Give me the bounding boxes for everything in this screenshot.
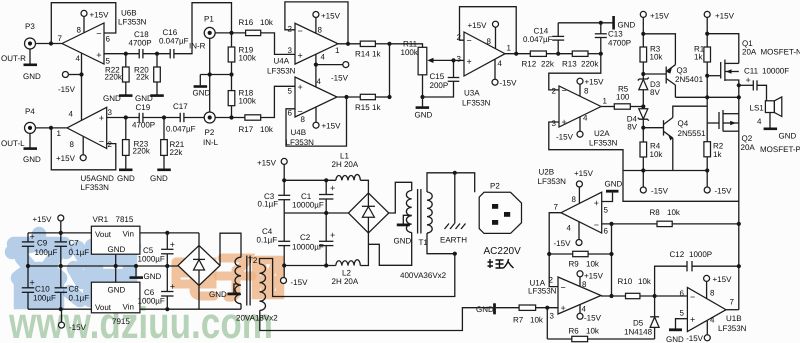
T1 primary bottom lead / AC line xyxy=(427,233,455,254)
svg-text:P2: P2 xyxy=(490,182,500,191)
resistor R9 xyxy=(549,253,573,255)
svg-text:2N5401: 2N5401 xyxy=(675,75,704,84)
wire to Q3 emitter xyxy=(643,34,675,65)
capacitor C2 xyxy=(325,213,327,241)
aux bridge top to rail xyxy=(198,233,200,246)
svg-text:7: 7 xyxy=(730,298,735,307)
+15V rail xyxy=(284,179,336,181)
U1B output wire xyxy=(726,309,739,311)
capacitor C12 xyxy=(655,266,687,296)
svg-text:−: − xyxy=(96,29,101,39)
svg-text:2: 2 xyxy=(108,140,113,149)
svg-text:+15V: +15V xyxy=(574,169,594,178)
svg-text:+: + xyxy=(330,183,335,193)
U2B pin4 -15V terminal xyxy=(578,222,580,240)
svg-text:GND: GND xyxy=(193,89,211,98)
svg-text:4: 4 xyxy=(76,54,81,63)
resistor R14 xyxy=(360,41,375,46)
svg-text:4: 4 xyxy=(757,117,762,126)
T2 center tap ground xyxy=(234,284,239,293)
op-amp U4A xyxy=(295,23,338,64)
capacitor C10 xyxy=(27,266,29,288)
svg-text:10000F: 10000F xyxy=(762,67,789,76)
T1 primary top lead to AC inlet xyxy=(427,173,475,193)
svg-text:GND: GND xyxy=(666,335,684,343)
svg-text:+15V: +15V xyxy=(715,12,735,21)
P1 sleeve wire to ground rail xyxy=(209,38,211,112)
wire U5A feedback loop xyxy=(51,128,116,170)
U1B pin5 ground xyxy=(676,319,688,329)
capacitor C5 xyxy=(166,233,168,249)
watermark hanzi DIAN (orange) xyxy=(176,255,214,296)
op-amp U1B xyxy=(687,287,726,331)
ground rail with R19/R18 junction xyxy=(200,74,231,76)
svg-text:U2A: U2A xyxy=(594,129,610,138)
svg-text:C12: C12 xyxy=(670,250,685,259)
svg-text:GND: GND xyxy=(209,290,227,299)
svg-text:20A: 20A xyxy=(741,143,756,152)
svg-text:+: + xyxy=(170,282,175,292)
terminal +15V power xyxy=(281,158,287,164)
U3A feedback wire to pin2 xyxy=(460,7,517,54)
svg-text:4: 4 xyxy=(498,59,503,68)
svg-text:8: 8 xyxy=(584,87,589,96)
op-amp U3A xyxy=(464,32,505,76)
svg-text:8V: 8V xyxy=(627,123,637,132)
svg-text:GND: GND xyxy=(605,180,623,189)
svg-text:3: 3 xyxy=(550,312,555,321)
svg-text:8: 8 xyxy=(582,280,587,289)
svg-text:8: 8 xyxy=(572,195,577,204)
svg-text:-15V: -15V xyxy=(500,79,518,88)
speaker LS1 xyxy=(765,101,774,113)
svg-text:+: + xyxy=(594,198,599,208)
capacitor C14 xyxy=(557,40,559,54)
regulator negative rail xyxy=(140,308,241,310)
diode D5 (1N4148) xyxy=(654,296,656,317)
svg-text:3: 3 xyxy=(108,108,113,117)
svg-text:10k: 10k xyxy=(638,277,652,286)
svg-text:−: − xyxy=(594,220,599,230)
svg-text:LF353N: LF353N xyxy=(118,18,147,27)
terminal -15V power xyxy=(283,266,285,278)
node R23 top xyxy=(124,115,128,119)
node Q4 base xyxy=(641,126,645,130)
capacitor C17 xyxy=(179,113,181,122)
svg-text:2N5551: 2N5551 xyxy=(678,129,707,138)
output rail xyxy=(675,96,738,98)
resistor R17 xyxy=(245,115,261,120)
svg-text:400VA36Vx2: 400VA36Vx2 xyxy=(400,271,447,280)
resistor R20 xyxy=(156,54,158,67)
svg-text:4: 4 xyxy=(321,53,326,62)
svg-text:C19: C19 xyxy=(136,103,151,112)
watermark hanzi RONG (blue) xyxy=(12,234,66,302)
terminal -15V regulator xyxy=(61,309,63,322)
svg-text:U4A: U4A xyxy=(274,57,290,66)
svg-text:8: 8 xyxy=(77,26,82,35)
svg-text:GND: GND xyxy=(150,174,168,183)
bridge rectifier (main) xyxy=(348,193,388,233)
svg-text:100k: 100k xyxy=(239,53,257,62)
svg-text:+: + xyxy=(298,82,303,92)
svg-text:3: 3 xyxy=(457,55,462,64)
ground under P4 xyxy=(29,133,31,148)
node U6B output xyxy=(49,41,53,45)
U4A pin4 wire down to U4B xyxy=(315,54,317,87)
svg-text:+: + xyxy=(298,51,303,61)
0V mid rail to bridge xyxy=(284,212,348,214)
svg-text:IN-L: IN-L xyxy=(203,138,219,147)
wire P4 to U5A output xyxy=(36,127,68,129)
R11 wiper arrow xyxy=(432,59,454,61)
svg-text:OUT-L: OUT-L xyxy=(1,139,25,148)
pin 8 +15V terminal xyxy=(82,137,84,155)
0V rail xyxy=(28,265,178,267)
wire +15V to Q1 drain xyxy=(707,34,739,64)
svg-text:Vin: Vin xyxy=(123,303,134,312)
svg-text:10k: 10k xyxy=(260,125,274,134)
wire R13 node to U2A pin2 xyxy=(549,54,601,90)
svg-text:1k: 1k xyxy=(372,103,381,112)
capacitor C8 xyxy=(60,266,62,288)
svg-text:8: 8 xyxy=(318,26,323,35)
svg-text:20A: 20A xyxy=(742,48,757,57)
zener D3 xyxy=(638,78,649,81)
resistor R8 xyxy=(657,221,672,226)
svg-text:Q2: Q2 xyxy=(742,134,753,143)
svg-text:2H 20A: 2H 20A xyxy=(332,277,359,286)
svg-text:22k: 22k xyxy=(170,148,184,157)
svg-text:4700P: 4700P xyxy=(608,38,631,47)
node R21 top xyxy=(162,115,166,119)
ground symbol xyxy=(199,75,201,86)
svg-text:1000µF: 1000µF xyxy=(138,297,165,306)
svg-text:−: − xyxy=(467,36,472,46)
transistor Q3 (2N5401) xyxy=(643,73,666,75)
svg-text:R10: R10 xyxy=(618,277,633,286)
svg-text:3: 3 xyxy=(552,119,557,128)
svg-text:LF353N: LF353N xyxy=(589,138,618,147)
node R20 top xyxy=(155,52,159,56)
inductor L1 xyxy=(336,175,361,181)
capacitor C6 xyxy=(166,266,168,292)
op-amp U5A xyxy=(67,107,107,148)
svg-text:-15V: -15V xyxy=(58,85,76,94)
potentiometer R11 xyxy=(418,47,427,75)
svg-text:100k: 100k xyxy=(239,97,257,106)
svg-text:LF353N: LF353N xyxy=(528,287,557,296)
svg-text:1000µF: 1000µF xyxy=(138,255,165,264)
resistor R21 xyxy=(163,118,165,140)
svg-text:5: 5 xyxy=(680,309,685,318)
resistor R7 xyxy=(496,307,519,309)
wire U6B pin5 line xyxy=(104,53,139,55)
svg-text:GND: GND xyxy=(23,72,41,81)
svg-text:−: − xyxy=(561,283,566,293)
svg-text:22k: 22k xyxy=(136,73,150,82)
ground under R20 xyxy=(150,94,164,97)
MOSFET Q1 xyxy=(720,62,722,79)
wire U5A pin3 line xyxy=(107,117,140,119)
svg-text:-15V: -15V xyxy=(331,74,349,83)
node R13/C13 xyxy=(599,52,603,56)
svg-text:-15V: -15V xyxy=(291,278,309,287)
transformer T2 secondary winding xyxy=(235,257,241,304)
U3A pin8 +15V terminal xyxy=(493,21,499,27)
svg-text:R15: R15 xyxy=(355,103,370,112)
capacitor C16 xyxy=(169,49,171,58)
svg-text:1k: 1k xyxy=(713,150,722,159)
svg-text:10000µF: 10000µF xyxy=(292,243,324,252)
svg-text:P3: P3 xyxy=(25,22,35,31)
regulator VR1 7815 xyxy=(91,226,139,254)
resistor R16 xyxy=(246,30,261,35)
svg-text:8V: 8V xyxy=(650,88,660,97)
svg-text:GND: GND xyxy=(103,94,121,103)
ground under P3 xyxy=(29,49,31,64)
wire C16 to P1 node xyxy=(174,3,232,54)
svg-text:8: 8 xyxy=(710,289,715,298)
pin 8 +15V terminal xyxy=(83,16,85,32)
svg-text:+15V: +15V xyxy=(322,122,342,131)
svg-text:3: 3 xyxy=(288,46,293,55)
wire P1 to R16 node xyxy=(215,32,245,34)
svg-text:U6B: U6B xyxy=(121,9,137,18)
svg-text:LF353N: LF353N xyxy=(538,177,567,186)
svg-text:+15V: +15V xyxy=(468,21,488,30)
aux bridge bottom to rail xyxy=(198,286,200,310)
terminal +15V (left column) xyxy=(640,11,646,17)
svg-text:Q3: Q3 xyxy=(677,66,688,75)
U2B pin8 +15V terminal xyxy=(576,181,582,187)
svg-text:IN-R: IN-R xyxy=(189,42,206,51)
-15V output rail xyxy=(28,308,91,310)
svg-text:10k: 10k xyxy=(650,150,664,159)
svg-text:2: 2 xyxy=(549,276,554,285)
wire R16 to U4A pin3 (jog) xyxy=(261,33,295,55)
resistor R4 xyxy=(640,142,647,157)
svg-text:1000P: 1000P xyxy=(689,250,712,259)
transformer T2 primary winding xyxy=(260,264,266,311)
wire P3 to U6B output xyxy=(36,43,63,45)
svg-text:1: 1 xyxy=(335,46,340,55)
7915 ground stub xyxy=(115,266,117,282)
svg-text:220k: 220k xyxy=(105,73,123,82)
U1A pin8 +15V terminal xyxy=(577,271,583,277)
svg-text:GND: GND xyxy=(394,237,412,246)
svg-text:+15V: +15V xyxy=(321,12,341,21)
svg-text:8: 8 xyxy=(301,115,306,124)
svg-text:8: 8 xyxy=(70,140,75,149)
svg-text:4: 4 xyxy=(710,316,715,325)
svg-text:Q4: Q4 xyxy=(678,119,689,128)
ground under R22 xyxy=(119,94,133,97)
emitter rail Q4 to R2 node xyxy=(643,170,707,172)
terminal -15V (left column) xyxy=(640,187,646,193)
svg-text:+: + xyxy=(562,117,567,127)
svg-text:−: − xyxy=(99,137,104,147)
U2A pin3 long wire to -15V node and output loop xyxy=(549,122,739,201)
bridge rectifier (aux) xyxy=(178,246,220,286)
svg-text:+15V: +15V xyxy=(584,272,604,281)
svg-text:P1: P1 xyxy=(204,15,214,24)
svg-text:0.1µF: 0.1µF xyxy=(258,200,279,209)
earth symbol xyxy=(454,173,456,224)
node P1/R16 xyxy=(229,31,233,35)
resistor R6 xyxy=(547,338,572,340)
node R5 output xyxy=(641,104,645,108)
hanzi SHURU (mains input) xyxy=(488,259,514,268)
U1B pin8 +15V terminal xyxy=(704,275,710,281)
svg-text:+15V: +15V xyxy=(585,78,605,87)
capacitor C19 xyxy=(138,113,140,122)
svg-text:GND: GND xyxy=(144,272,162,281)
svg-text:MOSFET-P: MOSFET-P xyxy=(760,145,800,154)
resistor R3 xyxy=(640,47,647,62)
svg-text:-15V: -15V xyxy=(69,323,87,332)
U4A pin8 +15V terminal xyxy=(313,12,319,18)
svg-text:0.1µF: 0.1µF xyxy=(69,294,90,303)
U4A output wire xyxy=(338,43,360,45)
bridge to T1 secondary bottom xyxy=(368,232,411,265)
ground bar R7 input xyxy=(493,303,496,314)
regulator 7915 xyxy=(91,282,139,313)
svg-text:+: + xyxy=(99,113,104,123)
svg-text:7: 7 xyxy=(554,203,559,212)
svg-text:5: 5 xyxy=(604,206,609,215)
svg-text:LF353N: LF353N xyxy=(267,67,296,76)
U1A output wire xyxy=(601,295,626,297)
svg-text:GND: GND xyxy=(23,155,41,164)
resistor R23 xyxy=(125,118,127,140)
svg-text:0.047µF: 0.047µF xyxy=(159,37,189,46)
svg-text:+15V: +15V xyxy=(90,11,110,20)
wire R17 to U4B pin5 (jog) xyxy=(261,86,295,117)
svg-text:8: 8 xyxy=(487,37,492,46)
svg-text:4700P: 4700P xyxy=(132,121,155,130)
U4A feedback wire to pin2 xyxy=(285,2,348,44)
svg-text:U5AGND: U5AGND xyxy=(81,174,115,183)
svg-text:10k: 10k xyxy=(667,208,681,217)
svg-text:22k: 22k xyxy=(541,60,555,69)
svg-text:10k: 10k xyxy=(260,18,274,27)
svg-text:LF353N: LF353N xyxy=(462,99,491,108)
ground under R21 xyxy=(157,169,171,172)
U4B feedback wire to pin6 xyxy=(286,97,347,146)
svg-text:C13: C13 xyxy=(608,30,623,39)
svg-text:R9: R9 xyxy=(569,260,580,269)
svg-text:GND: GND xyxy=(779,132,797,141)
capacitor C11 (polarized) xyxy=(737,83,741,87)
svg-text:R14: R14 xyxy=(355,50,370,59)
svg-text:C17: C17 xyxy=(173,102,188,111)
terminal -15V (right column) xyxy=(704,187,710,193)
svg-text:VR1: VR1 xyxy=(93,215,109,224)
svg-text:GND: GND xyxy=(618,21,636,30)
wire C11 to speaker xyxy=(757,85,767,101)
svg-text:1N4148: 1N4148 xyxy=(624,328,653,337)
U3A output wire xyxy=(505,53,530,55)
svg-text:0.047µF: 0.047µF xyxy=(523,35,553,44)
terminal -15V shared xyxy=(316,64,343,66)
svg-text:+: + xyxy=(746,75,751,85)
capacitor C4 xyxy=(283,213,285,241)
svg-text:-15V: -15V xyxy=(715,187,733,196)
branch to zener node xyxy=(623,170,643,172)
feedback vertical U1A out to U2B pin6 xyxy=(611,224,613,296)
svg-text:+: + xyxy=(690,315,695,325)
svg-text:-15V: -15V xyxy=(651,187,669,196)
R11 bottom to ground node xyxy=(422,75,424,97)
U2A pin4 -15V terminal xyxy=(577,131,583,137)
svg-text:Vin: Vin xyxy=(123,230,134,239)
svg-text:U1B: U1B xyxy=(726,314,742,323)
op-amp U6B xyxy=(62,23,104,64)
node C14 tap xyxy=(556,52,560,56)
svg-text:6: 6 xyxy=(604,227,609,236)
svg-text:C8: C8 xyxy=(69,285,80,294)
svg-text:10k: 10k xyxy=(586,327,600,336)
wire pin3 node down to R6 xyxy=(546,308,548,339)
svg-text:R6: R6 xyxy=(569,327,580,336)
T2 core xyxy=(246,256,248,306)
wire mix bus to pot R11 xyxy=(390,44,423,48)
svg-text:U4B: U4B xyxy=(291,128,307,137)
svg-text:7: 7 xyxy=(58,34,63,43)
resistor R18 xyxy=(231,75,233,91)
svg-text:1: 1 xyxy=(57,129,62,138)
node R22 top xyxy=(124,52,128,56)
node U5A output xyxy=(49,126,53,130)
capacitor C3 xyxy=(278,194,290,196)
svg-text:6: 6 xyxy=(288,109,293,118)
svg-text:10k: 10k xyxy=(650,53,664,62)
node P2/R17 xyxy=(229,115,233,119)
pin 4 wire to -15V rail xyxy=(81,53,83,120)
svg-text:10000µF: 10000µF xyxy=(292,201,324,210)
svg-text:+15V: +15V xyxy=(257,159,277,168)
svg-text:−: − xyxy=(690,292,695,302)
-15V rail with L2 xyxy=(284,265,336,267)
watermark hanzi ZI (orange) xyxy=(218,258,252,297)
svg-text:R13: R13 xyxy=(562,60,577,69)
transistor Q4 (2N5551) xyxy=(643,127,663,129)
AC line to T2 primary top xyxy=(260,254,455,297)
svg-text:R17: R17 xyxy=(239,125,254,134)
node after R14 / mix bus xyxy=(387,42,391,46)
zener D4 xyxy=(639,109,648,119)
svg-text:0.047µF: 0.047µF xyxy=(166,125,196,134)
svg-text:2H 20A: 2H 20A xyxy=(332,160,359,169)
svg-text:-15V: -15V xyxy=(556,133,574,142)
svg-text:GND: GND xyxy=(415,111,433,120)
transformer T1 secondary winding xyxy=(406,191,411,233)
U2B pin6 wire xyxy=(602,223,657,225)
ground bar (vertical) xyxy=(612,16,615,30)
resistor R13 xyxy=(572,51,588,56)
svg-text:U3A: U3A xyxy=(464,89,480,98)
resistor R2 xyxy=(704,142,711,157)
svg-text:LF353N: LF353N xyxy=(81,183,110,192)
svg-text:T2: T2 xyxy=(248,256,258,265)
U1A pin4 -15V terminal xyxy=(577,313,583,319)
resistor R12 xyxy=(530,51,546,56)
svg-text:GND: GND xyxy=(108,245,126,254)
svg-text:6: 6 xyxy=(680,289,685,298)
watermark hanzi YUAN (blue) xyxy=(70,246,134,300)
MOSFET Q2 xyxy=(718,112,720,129)
